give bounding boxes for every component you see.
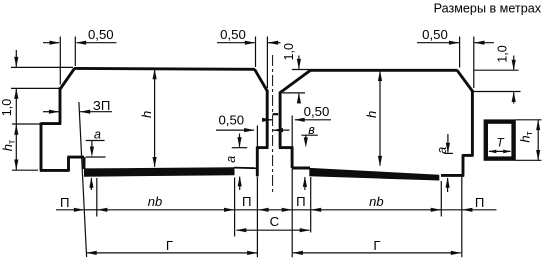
wire bump top <box>67 156 84 159</box>
center axis dash-dot line <box>272 55 274 193</box>
wire step inner face down <box>256 146 259 176</box>
dimension C row2 <box>236 229 309 231</box>
ext slab right end right section <box>440 181 442 217</box>
svg-text:Т: Т <box>496 136 505 150</box>
dimension 0,50 center-right <box>263 119 331 121</box>
ext right berm level outer <box>474 91 521 93</box>
dimension П1 <box>56 209 84 211</box>
svg-text:a: a <box>94 128 101 142</box>
svg-text:h: h <box>364 111 379 118</box>
ext right berm level mid <box>282 92 305 94</box>
dimension 0,50 top-left <box>43 42 117 44</box>
svg-text:ЗП: ЗП <box>93 98 110 113</box>
ext top chamfer mid 2 <box>266 37 268 89</box>
svg-text:0,50: 0,50 <box>88 27 114 42</box>
svg-text:hт: hт <box>518 131 534 142</box>
ext ledge face right section <box>461 177 463 258</box>
svg-text:nb: nb <box>148 194 162 209</box>
ext nb left boundary <box>96 178 98 217</box>
dimension h_t far right <box>537 120 539 160</box>
ext h_t bottom level <box>12 169 38 171</box>
ext step face left section below <box>256 177 258 257</box>
wire bottom of left step <box>40 169 69 172</box>
svg-text:С: С <box>270 214 280 229</box>
dimension 1,0 far left <box>15 50 17 67</box>
wire left bevel <box>61 68 75 88</box>
wire slab top edge to step <box>234 167 257 170</box>
ext top chamfer mid 1 <box>255 37 257 68</box>
svg-text:0,50: 0,50 <box>218 112 244 127</box>
wire top surface right section <box>310 69 458 72</box>
wire ledge to left <box>463 154 474 157</box>
dimension a lower arrow left bump <box>90 178 92 190</box>
svg-text:1,0: 1,0 <box>282 43 296 61</box>
wire ledge face down <box>462 154 465 175</box>
ext top chamfer right 1 <box>459 37 461 68</box>
wire step top <box>41 122 61 125</box>
wire right wall of left section <box>266 91 269 148</box>
tick bump top level left <box>86 156 106 158</box>
ext slab right end left section <box>234 178 236 237</box>
dimension a lower arrow right section left end <box>304 177 306 190</box>
svg-text:Г: Г <box>166 238 173 253</box>
dimension a right end of left section <box>239 134 241 147</box>
ext top chamfer left 1 <box>59 37 61 85</box>
svg-text:П: П <box>296 194 305 209</box>
ext T block bottom <box>516 159 542 161</box>
dimension П4 <box>439 209 497 211</box>
svg-text:Г: Г <box>373 238 380 253</box>
ext right surface level mid <box>292 69 310 71</box>
dimension C inner arrows <box>235 209 312 211</box>
right section outline <box>279 70 474 175</box>
dimension Г2 <box>293 252 461 254</box>
ext slab left end right section <box>310 177 312 233</box>
wire step inner face down <box>291 146 294 168</box>
dimension a right end of right section <box>447 134 449 153</box>
svg-text:a: a <box>435 147 449 154</box>
ext right surface level outer <box>474 69 519 71</box>
ext top chamfer left 2 <box>74 37 76 67</box>
tick step level a2 <box>232 147 247 149</box>
dimension nb2 <box>311 209 440 211</box>
svg-text:П: П <box>60 195 69 210</box>
lining slab bar left section <box>84 167 235 176</box>
wire right wall of right section <box>471 90 474 155</box>
ext h_t top level <box>12 123 40 125</box>
svg-text:hт: hт <box>0 140 16 151</box>
dimension Г1 <box>87 252 257 254</box>
ext step face right section below <box>291 168 293 257</box>
dimension 0,50 center-left <box>216 129 290 131</box>
slant slope line left <box>79 102 87 257</box>
dimension nb1 <box>98 209 235 211</box>
wire bump right face <box>83 157 86 169</box>
svg-text:nb: nb <box>369 194 383 209</box>
wire slab top edge from step <box>292 167 310 170</box>
wire top surface left section <box>74 67 255 71</box>
dimension 0,50 top-right <box>417 42 494 44</box>
T block <box>486 122 514 159</box>
wire left step outer face <box>40 122 43 170</box>
wire wall step to right <box>279 146 292 149</box>
ext step face left section above <box>256 126 258 148</box>
svg-text:h: h <box>139 111 154 118</box>
ext T block top <box>516 119 542 121</box>
svg-text:Размеры в метрах: Размеры в метрах <box>434 2 542 16</box>
dimension h left section <box>154 70 156 167</box>
wire left bevel of right section <box>280 70 311 93</box>
wire wall step to left <box>257 146 268 149</box>
svg-text:1,0: 1,0 <box>0 99 14 117</box>
wire bump left face <box>67 157 70 172</box>
ext left berm level <box>11 87 59 89</box>
ext step face right section above <box>291 116 293 148</box>
svg-text:0,50: 0,50 <box>220 27 246 42</box>
svg-text:П: П <box>475 195 484 210</box>
ext left surface level <box>11 66 73 68</box>
joint tick between walls <box>273 113 279 115</box>
svg-text:0,50: 0,50 <box>422 27 448 42</box>
wire right bevel of left section <box>255 69 268 91</box>
dimension 1,0 far right <box>513 56 515 70</box>
wire right bevel of right section <box>457 70 473 91</box>
svg-text:П: П <box>242 194 251 209</box>
dimension h right section <box>379 71 381 166</box>
dimension 0,50 top-middle <box>217 42 281 44</box>
wire left wall <box>59 87 62 123</box>
svg-text:a: a <box>224 156 238 163</box>
svg-text:0,50: 0,50 <box>304 104 330 119</box>
dimension 1,0 center right of axis <box>298 56 300 69</box>
dimension ZP <box>43 111 112 113</box>
lining slab bar right section <box>309 168 439 181</box>
left section outline <box>40 68 269 176</box>
wire ledge bottom <box>441 174 464 177</box>
wire left wall of right section <box>279 92 282 148</box>
svg-text:1,0: 1,0 <box>496 45 510 63</box>
ext top chamfer right 2 <box>473 37 475 89</box>
tick ledge level a3 <box>445 152 454 154</box>
dimension h_t far left <box>14 124 18 135</box>
